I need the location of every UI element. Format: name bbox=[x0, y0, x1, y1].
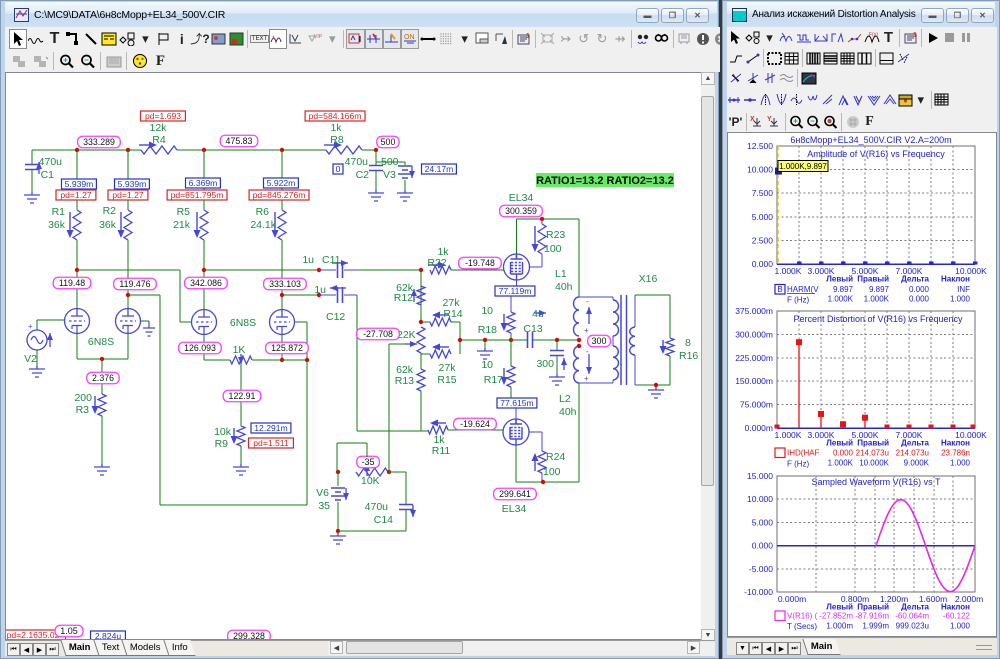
svg-text:C12: C12 bbox=[326, 311, 345, 323]
svg-text:1.000: 1.000 bbox=[950, 459, 971, 468]
svg-text:150.000m: 150.000m bbox=[735, 376, 773, 386]
svg-text:5.000: 5.000 bbox=[752, 517, 774, 527]
svg-text:6N8S: 6N8S bbox=[88, 336, 114, 348]
svg-text:RATIO1=13.2 RATIO2=13.2: RATIO1=13.2 RATIO2=13.2 bbox=[536, 175, 674, 187]
svg-text:1.000: 1.000 bbox=[950, 622, 971, 631]
svg-text:B: B bbox=[777, 285, 782, 294]
svg-text:0.000: 0.000 bbox=[833, 449, 854, 458]
svg-text:6н8сMopp+EL34_500V.CIR V2.A=20: 6н8сMopp+EL34_500V.CIR V2.A=200m bbox=[790, 135, 951, 145]
svg-text:12.500: 12.500 bbox=[747, 141, 773, 151]
svg-text:V6: V6 bbox=[316, 487, 329, 499]
svg-text:27k: 27k bbox=[439, 362, 457, 374]
svg-text:0.000: 0.000 bbox=[752, 541, 774, 551]
svg-text:36k: 36k bbox=[99, 219, 117, 231]
svg-text:+: + bbox=[28, 322, 33, 331]
svg-text:EL34: EL34 bbox=[509, 192, 534, 204]
svg-text:470u: 470u bbox=[345, 156, 369, 168]
svg-text:ON: ON bbox=[404, 34, 415, 41]
svg-text:24.17m: 24.17m bbox=[425, 164, 454, 174]
svg-text:Sampled Waveform V(R16) vs T: Sampled Waveform V(R16) vs T bbox=[811, 477, 941, 487]
svg-text:+: + bbox=[584, 326, 589, 335]
svg-text:L2: L2 bbox=[559, 393, 571, 405]
svg-text:-27.708: -27.708 bbox=[363, 329, 393, 339]
svg-text:0.000: 0.000 bbox=[752, 259, 774, 269]
svg-text:1u: 1u bbox=[314, 284, 326, 296]
svg-text:100: 100 bbox=[544, 243, 562, 255]
svg-text:HARM(V: HARM(V bbox=[787, 285, 819, 294]
svg-text:10: 10 bbox=[481, 359, 493, 371]
svg-text:1k: 1k bbox=[330, 122, 342, 134]
svg-text:V3: V3 bbox=[383, 169, 396, 181]
svg-text:0.000m: 0.000m bbox=[745, 423, 773, 433]
svg-text:INF: INF bbox=[957, 285, 970, 294]
svg-text:Левый: Левый bbox=[826, 275, 853, 284]
svg-text:36k: 36k bbox=[48, 219, 66, 231]
svg-text:9.897: 9.897 bbox=[869, 285, 890, 294]
svg-text:R23: R23 bbox=[546, 229, 565, 241]
svg-text:299.641: 299.641 bbox=[499, 489, 531, 499]
svg-text:X16: X16 bbox=[639, 273, 658, 285]
svg-text:-35: -35 bbox=[361, 457, 374, 467]
svg-text:10.000: 10.000 bbox=[747, 165, 773, 175]
svg-text:Левый: Левый bbox=[826, 603, 853, 612]
svg-text:0.000: 0.000 bbox=[909, 285, 930, 294]
svg-text:-10.000: -10.000 bbox=[744, 587, 773, 597]
svg-text:500: 500 bbox=[381, 137, 396, 147]
svg-text:299.328: 299.328 bbox=[233, 631, 265, 639]
svg-text:pd=1.27: pd=1.27 bbox=[112, 190, 144, 200]
svg-text:+: + bbox=[584, 374, 589, 383]
svg-text:Дельта: Дельта bbox=[901, 275, 929, 284]
svg-text:9.000K: 9.000K bbox=[904, 459, 930, 468]
svg-text:R15: R15 bbox=[437, 374, 456, 386]
svg-text:R12: R12 bbox=[394, 292, 413, 304]
svg-text:Правый: Правый bbox=[857, 275, 889, 284]
svg-text:7.500: 7.500 bbox=[752, 188, 774, 198]
svg-text:5.922m: 5.922m bbox=[267, 178, 296, 188]
svg-text:470u: 470u bbox=[365, 501, 389, 513]
svg-text:Правый: Правый bbox=[857, 439, 889, 448]
svg-text:-19.624: -19.624 bbox=[460, 419, 490, 429]
svg-text:C2: C2 bbox=[356, 169, 370, 181]
svg-text:2.376: 2.376 bbox=[92, 373, 114, 383]
svg-text:200: 200 bbox=[74, 392, 92, 404]
svg-text:1: 1 bbox=[913, 32, 917, 39]
svg-text:-5.000: -5.000 bbox=[749, 564, 773, 574]
svg-text:8: 8 bbox=[685, 337, 691, 349]
svg-text:1.000K: 1.000K bbox=[775, 430, 802, 440]
svg-text:R22: R22 bbox=[427, 257, 446, 269]
svg-text:77.119m: 77.119m bbox=[499, 286, 532, 296]
svg-text:1.000K: 1.000K bbox=[864, 295, 890, 304]
svg-text:VIP: VIP bbox=[314, 34, 322, 40]
svg-text:5.939m: 5.939m bbox=[118, 179, 147, 189]
svg-text:6.369m: 6.369m bbox=[189, 178, 218, 188]
svg-text:15.000: 15.000 bbox=[747, 471, 773, 481]
svg-text:1.000K: 1.000K bbox=[775, 266, 802, 276]
svg-text:Наклон: Наклон bbox=[941, 275, 970, 284]
svg-text:-: - bbox=[586, 297, 589, 306]
svg-text:-19.748: -19.748 bbox=[465, 258, 495, 268]
svg-text:0.000: 0.000 bbox=[909, 295, 930, 304]
svg-text:119.476: 119.476 bbox=[119, 279, 150, 289]
svg-text:300.359: 300.359 bbox=[505, 206, 537, 216]
svg-text:77.615m: 77.615m bbox=[500, 398, 533, 408]
svg-text:L1: L1 bbox=[555, 268, 567, 280]
svg-text:12k: 12k bbox=[150, 122, 168, 134]
svg-text:pd=1.511: pd=1.511 bbox=[253, 438, 289, 448]
svg-text:125.872: 125.872 bbox=[271, 343, 303, 353]
svg-text:R4: R4 bbox=[152, 134, 166, 146]
svg-text:10K: 10K bbox=[361, 475, 380, 487]
svg-text:-27.852m: -27.852m bbox=[819, 612, 853, 621]
svg-text:9.897: 9.897 bbox=[833, 285, 854, 294]
svg-text:pd=851.795m: pd=851.795m bbox=[171, 190, 224, 200]
svg-text:T (Secs): T (Secs) bbox=[787, 622, 817, 631]
svg-text:1.000K: 1.000K bbox=[828, 295, 854, 304]
svg-text:V2: V2 bbox=[24, 353, 37, 365]
svg-text:-60.122: -60.122 bbox=[943, 612, 971, 621]
svg-text:1.05: 1.05 bbox=[60, 626, 78, 636]
svg-text:R11: R11 bbox=[432, 445, 451, 457]
svg-text:1.000: 1.000 bbox=[950, 295, 971, 304]
svg-text:214.073u: 214.073u bbox=[856, 449, 889, 458]
svg-text:pd=2.1635.02: pd=2.1635.02 bbox=[7, 630, 60, 639]
svg-text:R13: R13 bbox=[395, 375, 414, 387]
svg-text:10: 10 bbox=[481, 305, 493, 317]
svg-text:R17: R17 bbox=[484, 374, 503, 386]
svg-text:C13: C13 bbox=[523, 323, 542, 335]
svg-text:2.500: 2.500 bbox=[752, 235, 774, 245]
svg-text:R16: R16 bbox=[679, 350, 698, 362]
svg-text:R3: R3 bbox=[76, 404, 90, 416]
svg-text:300: 300 bbox=[591, 336, 606, 346]
svg-text:R24: R24 bbox=[546, 451, 565, 463]
svg-text:pd=845.276m: pd=845.276m bbox=[253, 190, 306, 200]
svg-text:1.000K,9.897: 1.000K,9.897 bbox=[779, 162, 827, 171]
svg-text:2.824u: 2.824u bbox=[95, 631, 122, 639]
svg-text:40h: 40h bbox=[555, 281, 573, 293]
svg-text:500: 500 bbox=[381, 156, 399, 168]
svg-text:-87.916m: -87.916m bbox=[855, 612, 889, 621]
svg-text:470u: 470u bbox=[39, 156, 63, 168]
svg-text:R1: R1 bbox=[52, 206, 66, 218]
svg-text:IHD(HAF: IHD(HAF bbox=[787, 449, 820, 458]
svg-text:475.83: 475.83 bbox=[226, 136, 253, 146]
svg-text:Amplitude of V(R16) vs Frequen: Amplitude of V(R16) vs Frequency bbox=[807, 149, 945, 159]
svg-text:Дельта: Дельта bbox=[901, 603, 929, 612]
svg-text:122.91: 122.91 bbox=[229, 391, 256, 401]
svg-text:10k: 10k bbox=[214, 426, 232, 438]
svg-text:24.1k: 24.1k bbox=[250, 219, 276, 231]
svg-text:EL34: EL34 bbox=[502, 503, 527, 515]
svg-text:333.289: 333.289 bbox=[83, 137, 115, 147]
svg-text:R6: R6 bbox=[256, 206, 270, 218]
svg-text:Наклон: Наклон bbox=[941, 603, 970, 612]
svg-text:R18: R18 bbox=[478, 324, 497, 336]
svg-text:225.000m: 225.000m bbox=[735, 353, 773, 363]
svg-text:100: 100 bbox=[543, 466, 561, 478]
svg-text:V(R16) (: V(R16) ( bbox=[787, 612, 818, 621]
svg-text:300: 300 bbox=[536, 358, 554, 370]
svg-text:126.093: 126.093 bbox=[184, 343, 216, 353]
svg-text:5.939m: 5.939m bbox=[65, 179, 94, 189]
svg-text:1u: 1u bbox=[302, 254, 314, 266]
svg-text:R2: R2 bbox=[103, 205, 117, 217]
svg-text:1: 1 bbox=[526, 33, 530, 40]
svg-text:F (Hz): F (Hz) bbox=[787, 460, 810, 469]
svg-text:333.103: 333.103 bbox=[269, 279, 301, 289]
svg-text:R9: R9 bbox=[215, 438, 229, 450]
svg-text:C11: C11 bbox=[322, 254, 341, 266]
svg-text:300.000m: 300.000m bbox=[735, 329, 773, 339]
svg-text:R14: R14 bbox=[443, 308, 462, 320]
svg-text:6N8S: 6N8S bbox=[230, 317, 256, 329]
svg-text:R5: R5 bbox=[177, 206, 191, 218]
svg-text:C1: C1 bbox=[41, 169, 55, 181]
svg-text:F (Hz): F (Hz) bbox=[787, 296, 810, 305]
svg-text:F(s): F(s) bbox=[869, 32, 878, 38]
svg-text:1.999m: 1.999m bbox=[862, 622, 889, 631]
svg-text:5.000: 5.000 bbox=[752, 212, 774, 222]
svg-text:-60.064m: -60.064m bbox=[895, 612, 929, 621]
svg-text:pd=584.166m: pd=584.166m bbox=[309, 111, 362, 121]
svg-text:1K: 1K bbox=[233, 344, 246, 356]
svg-text:214.073u: 214.073u bbox=[896, 449, 929, 458]
svg-text:0: 0 bbox=[336, 164, 341, 174]
svg-text:1.000m: 1.000m bbox=[826, 622, 853, 631]
svg-text:1.000K: 1.000K bbox=[828, 459, 854, 468]
svg-text:342.086: 342.086 bbox=[190, 278, 222, 288]
svg-text:0.000m: 0.000m bbox=[778, 594, 806, 604]
svg-text:999.023u: 999.023u bbox=[896, 622, 929, 631]
svg-text:pd=1.27: pd=1.27 bbox=[60, 190, 92, 200]
svg-text:Правый: Правый bbox=[857, 603, 889, 612]
svg-text:12.291m: 12.291m bbox=[254, 423, 287, 433]
svg-text:35: 35 bbox=[318, 500, 330, 512]
svg-text:10.000: 10.000 bbox=[747, 494, 773, 504]
svg-text:Наклон: Наклон bbox=[941, 439, 970, 448]
svg-text:375.000m: 375.000m bbox=[735, 306, 773, 316]
svg-text:R8: R8 bbox=[330, 134, 344, 146]
svg-text:75.000m: 75.000m bbox=[740, 400, 773, 410]
svg-text:21k: 21k bbox=[173, 219, 191, 231]
svg-text:10.000K: 10.000K bbox=[859, 459, 889, 468]
svg-text:Дельта: Дельта bbox=[901, 439, 929, 448]
svg-text:23.786n: 23.786n bbox=[941, 449, 970, 458]
svg-text:40h: 40h bbox=[559, 406, 577, 418]
svg-text:119.48: 119.48 bbox=[59, 278, 85, 288]
svg-text:pd=1.693: pd=1.693 bbox=[145, 111, 181, 121]
svg-text:Percent Distortion of V(R16) v: Percent Distortion of V(R16) vs Frequenc… bbox=[793, 314, 963, 324]
svg-text:C14: C14 bbox=[374, 514, 393, 526]
svg-text:Левый: Левый bbox=[826, 439, 853, 448]
